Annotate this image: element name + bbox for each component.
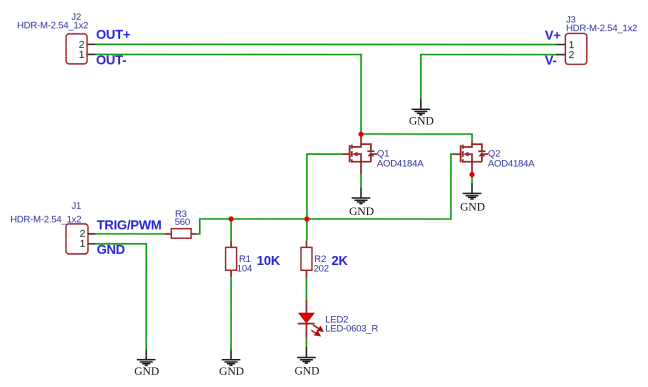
svg-text:TRIG/PWM: TRIG/PWM <box>97 218 162 233</box>
svg-text:LED-0603_R: LED-0603_R <box>325 323 378 334</box>
svg-text:GND: GND <box>134 366 159 378</box>
svg-text:V-: V- <box>545 53 557 68</box>
svg-text:AOD4184A: AOD4184A <box>377 159 424 170</box>
svg-text:OUT-: OUT- <box>96 52 126 67</box>
svg-text:GND: GND <box>219 366 244 378</box>
svg-text:GND: GND <box>294 366 319 378</box>
svg-text:GND: GND <box>460 201 485 213</box>
svg-text:OUT+: OUT+ <box>96 27 131 42</box>
svg-text:560: 560 <box>175 217 190 228</box>
svg-text:104: 104 <box>237 264 252 275</box>
svg-text:1: 1 <box>79 49 85 61</box>
svg-text:J1: J1 <box>71 201 81 212</box>
svg-text:GND: GND <box>97 242 125 257</box>
svg-text:GND: GND <box>409 116 434 128</box>
svg-text:V+: V+ <box>545 28 561 43</box>
svg-text:GND: GND <box>349 206 374 218</box>
svg-text:1: 1 <box>80 238 86 250</box>
svg-text:202: 202 <box>314 264 329 275</box>
svg-text:AOD4184A: AOD4184A <box>488 159 535 170</box>
svg-text:2K: 2K <box>331 253 348 268</box>
svg-text:2: 2 <box>569 49 575 61</box>
svg-text:HDR-M-2.54_1x2: HDR-M-2.54_1x2 <box>566 23 637 34</box>
svg-text:HDR-M-2.54_1x2: HDR-M-2.54_1x2 <box>10 214 81 225</box>
svg-text:HDR-M-2.54_1x2: HDR-M-2.54_1x2 <box>17 21 88 32</box>
svg-text:10K: 10K <box>257 253 281 268</box>
